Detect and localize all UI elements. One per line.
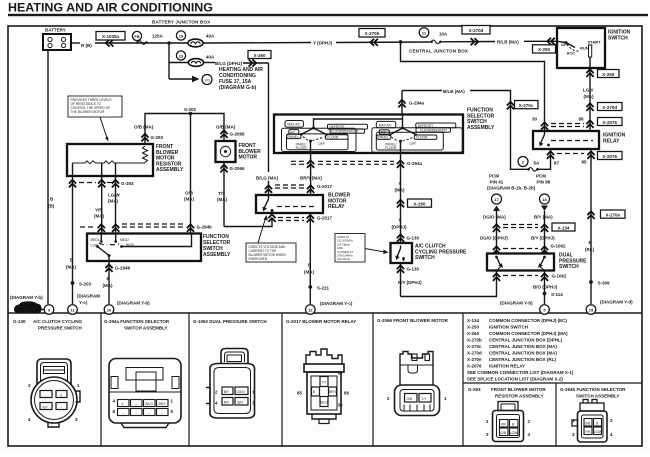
- svg-text:15: 15: [589, 308, 594, 313]
- left cluster: [282, 121, 368, 154]
- svg-text:SWITCH ASSEMBLY: SWITCH ASSEMBLY: [576, 394, 619, 399]
- arrow up pin41: [493, 206, 500, 212]
- svg-text:MED2: MED2: [120, 238, 129, 242]
- connector G-293 drawing: [493, 402, 524, 442]
- chevrons G-2017 above relay: [265, 185, 272, 193]
- wires below resistor assembly: [72, 176, 74, 304]
- svg-text:O/B: O/B: [407, 397, 413, 401]
- chevrons X-270d out: [471, 38, 479, 45]
- svg-text:B/Y (DPH⁠J): B/Y (DPH⁠J): [531, 236, 555, 241]
- svg-text:87: 87: [554, 161, 560, 166]
- svg-text:12: 12: [308, 308, 313, 313]
- svg-text:(MA): (MA): [217, 197, 227, 202]
- svg-text:(MA): (MA): [184, 197, 194, 202]
- splice S-114: [543, 292, 547, 296]
- svg-text:CENTRAL JUNCTION BOX (RL): CENTRAL JUNCTION BOX (RL): [489, 357, 556, 362]
- svg-text:LG/W: LG/W: [108, 193, 120, 198]
- svg-text:THE BLOWER MOTOR.: THE BLOWER MOTOR.: [71, 110, 106, 114]
- svg-text:85: 85: [582, 160, 588, 165]
- svg-text:RELAY: RELAY: [328, 204, 345, 210]
- svg-text:G-130: G-130: [13, 319, 26, 324]
- wire branch vertical: [168, 43, 170, 79]
- circle 12: [306, 305, 316, 315]
- svg-text:LG/W: LG/W: [594, 430, 602, 434]
- splice S-309: [589, 280, 593, 284]
- svg-text:MAX A/C: MAX A/C: [288, 123, 302, 127]
- svg-text:SEE SPLICE LOCATION LIST (DIAG: SEE SPLICE LOCATION LIST (DIAGRAM X-2): [467, 377, 563, 382]
- svg-text:BATTERY: BATTERY: [45, 28, 66, 33]
- svg-text:(MA): (MA): [94, 214, 104, 219]
- svg-text:X-270b: X-270b: [467, 338, 482, 343]
- svg-text:X-260: X-260: [253, 53, 266, 58]
- svg-text:LG/W: LG/W: [510, 431, 518, 435]
- connector G-130 drawing: [31, 359, 80, 427]
- ignition relay box: [533, 131, 599, 149]
- wire to ignition switch: [442, 41, 495, 43]
- internal rail: [73, 161, 146, 164]
- divider schematic/legend: [8, 312, 642, 314]
- circle 18: [540, 194, 550, 204]
- svg-text:(DIAGRAM Y-d): (DIAGRAM Y-d): [600, 300, 633, 305]
- svg-text:G-294b: G-294b: [197, 225, 213, 230]
- svg-text:(DIAGRAM B-1b, B-2b): (DIAGRAM B-1b, B-2b): [487, 186, 536, 191]
- connector G-2017 drawing: [304, 349, 344, 424]
- svg-text:PCM: PCM: [489, 174, 499, 179]
- svg-text:(MA): (MA): [584, 94, 594, 99]
- svg-text:T/Y: T/Y: [322, 381, 328, 385]
- function selector switch assembly box (mode): [274, 115, 463, 154]
- svg-text:IGNITION RELAY: IGNITION RELAY: [489, 364, 525, 369]
- svg-text:PIN 86: PIN 86: [537, 180, 551, 185]
- svg-text:B/LG (DPH⁠J): B/LG (DPH⁠J): [215, 61, 243, 66]
- svg-text:Y/R: Y/R: [585, 430, 591, 434]
- svg-text:MOTOR: MOTOR: [239, 155, 258, 161]
- svg-text:(MA): (MA): [103, 283, 113, 288]
- svg-text:120A: 120A: [152, 34, 164, 39]
- svg-text:(MA): (MA): [108, 199, 118, 204]
- splice S-221: [308, 285, 312, 289]
- svg-text:X-270c: X-270c: [467, 344, 482, 349]
- svg-text:X-260: X-260: [413, 201, 426, 206]
- wire B/LG vertical down to relay: [268, 63, 270, 172]
- svg-text:X-270d: X-270d: [602, 105, 617, 110]
- svg-text:5A: 5A: [534, 161, 541, 166]
- svg-text:SWITCH: SWITCH: [415, 255, 435, 261]
- svg-text:MAX A/C: MAX A/C: [379, 123, 393, 127]
- chevrons G-2066 top: [220, 130, 227, 138]
- svg-text:S-114: S-114: [551, 292, 563, 297]
- svg-text:IGNITION SWITCH: IGNITION SWITCH: [489, 325, 528, 330]
- svg-text:X-2076: X-2076: [602, 154, 617, 159]
- svg-text:G-130: G-130: [407, 236, 420, 241]
- svg-text:CENTRAL JUNCTION BOX (MA): CENTRAL JUNCTION BOX (MA): [489, 351, 557, 356]
- splice 120A fusible link: [136, 41, 148, 45]
- svg-text:SWITCH: SWITCH: [608, 35, 628, 41]
- front blower motor G-2066: [216, 141, 236, 162]
- svg-text:(DIAGRAM Y-c): (DIAGRAM Y-c): [320, 301, 353, 306]
- svg-text:CENTRAL JUNCT⁠ON BOX: CENTRAL JUNCT⁠ON BOX: [409, 49, 468, 54]
- fuse 40A second: [188, 59, 203, 67]
- connector G-294b drawing: [572, 400, 607, 443]
- wire B (MA) selector to circle 10: [108, 261, 110, 304]
- svg-text:B: B: [596, 422, 598, 426]
- svg-text:(DIAGRAM Y-b): (DIAGRAM Y-b): [117, 301, 150, 306]
- svg-text:COMMON CONNECTOR (DPH⁠J) (EC): COMMON CONNECTOR (DPH⁠J) (EC): [489, 318, 567, 323]
- svg-text:--: --: [135, 411, 137, 415]
- svg-text:A/C CLUTCH CYCLING: A/C CLUTCH CYCLING: [33, 319, 82, 324]
- svg-text:40A: 40A: [206, 55, 215, 60]
- svg-text:PCM: PCM: [536, 174, 546, 179]
- svg-text:B: B: [313, 390, 315, 394]
- svg-text:G-293: G-293: [468, 387, 481, 392]
- svg-text:PANEL: PANEL: [288, 135, 298, 139]
- svg-text:G-293: G-293: [151, 135, 164, 140]
- chevrons X-270b: [370, 39, 378, 46]
- svg-text:PANEL: PANEL: [378, 136, 388, 140]
- connector G-294a below box: [307, 160, 314, 168]
- wire junction down to G-294a: [401, 42, 545, 131]
- svg-text:(MA): (MA): [66, 265, 76, 270]
- svg-text:O/B: O/B: [585, 422, 591, 426]
- wire BR/Y from top selector: [310, 154, 312, 196]
- chevrons G-293 top: [141, 134, 148, 142]
- svg-text:R/Y (DPH⁠J): R/Y (DPH⁠J): [398, 280, 422, 285]
- svg-text:23: 23: [179, 54, 184, 59]
- svg-text:--: --: [45, 394, 47, 398]
- svg-text:X-260: X-260: [467, 331, 480, 336]
- svg-text:(DIAGRAM G-b): (DIAGRAM G-b): [219, 85, 257, 91]
- svg-text:OFF: OFF: [410, 142, 416, 146]
- svg-text:START: START: [588, 40, 602, 45]
- svg-text:G-294a: G-294a: [407, 161, 423, 166]
- svg-text:(B): (B): [48, 204, 55, 209]
- svg-text:V: V: [399, 218, 402, 223]
- svg-text:S-221: S-221: [317, 286, 330, 291]
- svg-text:FLOOR: FLOOR: [327, 136, 339, 140]
- svg-text:30: 30: [532, 117, 538, 122]
- svg-text:--: --: [161, 411, 163, 415]
- svg-text:ACC: ACC: [567, 51, 576, 56]
- svg-text:G-2017: G-2017: [317, 184, 333, 189]
- svg-text:FRONT BLOWER MOTOR: FRONT BLOWER MOTOR: [491, 387, 546, 392]
- chevrons X-270c: [507, 102, 514, 110]
- svg-text:B/LG: B/LG: [146, 402, 154, 406]
- svg-text:FLOOR: FLOOR: [416, 136, 428, 140]
- resistor assembly G-293 box: [67, 144, 153, 176]
- svg-text:S-202: S-202: [184, 107, 197, 112]
- svg-text:ENERGIZED.: ENERGIZED.: [249, 257, 269, 261]
- svg-text:MED1: MED1: [91, 238, 100, 242]
- blower motor relay G-2017 box: [256, 195, 323, 213]
- chevrons G-2066 bottom: [223, 162, 225, 227]
- svg-text:R/Y: R/Y: [224, 401, 230, 405]
- svg-text:HEATING AND AIR CONDITIONING: HEATING AND AIR CONDITIONING: [8, 3, 213, 15]
- wire ignition switch down to relay: [589, 68, 591, 131]
- wire B (B) battery down: [47, 50, 49, 304]
- svg-text:O/B: O/B: [185, 191, 194, 196]
- svg-text:DG/O (DPH⁠J): DG/O (DPH⁠J): [480, 236, 508, 241]
- box X-270d: [462, 26, 490, 35]
- wire battery to main bus: [71, 42, 80, 44]
- svg-text:SWITCH: SWITCH: [559, 264, 579, 270]
- svg-text:10: 10: [107, 308, 112, 313]
- svg-text:Y-c): Y-c): [79, 300, 88, 305]
- fuse 40A: [188, 39, 203, 47]
- svg-text:S-309: S-309: [598, 281, 611, 286]
- svg-text:(DPH⁠J): (DPH⁠J): [392, 225, 408, 230]
- circle 23: [176, 51, 185, 60]
- chevrons G-294a entry: [398, 100, 405, 108]
- svg-text:40A: 40A: [206, 34, 215, 39]
- svg-text:17: 17: [494, 197, 499, 202]
- svg-text:G-130: G-130: [407, 267, 420, 272]
- svg-text:Y (DPH⁠J): Y (DPH⁠J): [313, 41, 333, 46]
- chevrons G-130 bottom: [400, 263, 402, 297]
- svg-text:A/C: A/C: [381, 131, 387, 135]
- svg-text:OFF: OFF: [319, 142, 325, 146]
- svg-text:(MA): (MA): [304, 270, 314, 275]
- svg-text:FLOOR: FLOOR: [385, 146, 397, 150]
- svg-text:R/Y: R/Y: [43, 406, 49, 410]
- svg-text:DG/O (MA): DG/O (MA): [483, 215, 506, 220]
- svg-text:(MA): (MA): [395, 188, 405, 193]
- svg-text:87: 87: [338, 371, 344, 376]
- svg-text:B/O (DPH⁠J): B/O (DPH⁠J): [533, 285, 558, 290]
- svg-text:X-1035a: X-1035a: [102, 34, 120, 39]
- chevrons into X-260: [249, 59, 257, 66]
- note box PROVIDES THREE LEVELS: [68, 96, 122, 142]
- svg-text:CENTRAL JUNCTION BOX (DPHL): CENTRAL JUNCTION BOX (DPHL): [489, 338, 563, 343]
- svg-text:ASSEMBLY: ASSEMBLY: [156, 167, 184, 173]
- svg-text:B/Y: B/Y: [224, 390, 230, 394]
- wire main bus segment: [95, 42, 188, 44]
- svg-text:G-1062 DUAL PRESSURE SWITCH: G-1062 DUAL PRESSURE SWITCH: [193, 319, 267, 324]
- svg-text:X-270d: X-270d: [467, 351, 482, 356]
- svg-text:ASSEMBLY: ASSEMBLY: [467, 125, 495, 131]
- svg-text:B/LG (MA): B/LG (MA): [256, 176, 278, 181]
- svg-text:COMMON CONNECTOR (DPH⁠J) (MA): COMMON CONNECTOR (DPH⁠J) (MA): [489, 331, 568, 336]
- svg-text:30: 30: [338, 403, 344, 408]
- chevrons G-293 below: [69, 180, 76, 188]
- wire O/B down from S-202: [190, 114, 192, 234]
- svg-text:G-294b: G-294b: [115, 266, 131, 271]
- svg-text:FLOOR: FLOOR: [296, 146, 308, 150]
- svg-text:--: --: [60, 406, 62, 410]
- svg-text:R/LB (MA): R/LB (MA): [497, 40, 519, 45]
- dual pressure switch box: [487, 254, 554, 271]
- svg-text:ASSEMBLY: ASSEMBLY: [203, 252, 231, 258]
- chevrons G-1062 bottom: [496, 271, 498, 280]
- circle 17: [492, 194, 502, 204]
- svg-text:B/LB (MA): B/LB (MA): [443, 89, 465, 94]
- wires PCM down to dual switch: [496, 211, 498, 254]
- wire into ignition switch: [524, 40, 558, 42]
- svg-text:CENTRAL JUNCTION BOX (MA): CENTRAL JUNCTION BOX (MA): [489, 344, 557, 349]
- svg-text:86: 86: [344, 391, 350, 396]
- svg-text:BATTERY JUNCT⁠ON BOX: BATTERY JUNCT⁠ON BOX: [152, 20, 210, 25]
- svg-text:G-2017: G-2017: [317, 216, 333, 221]
- svg-text:X-250: X-250: [538, 47, 551, 52]
- wire to central junction box: [336, 41, 430, 44]
- svg-text:G-293: G-293: [121, 181, 134, 186]
- connector G-2066 drawing: [395, 352, 440, 416]
- svg-text:B/Y (MA): B/Y (MA): [534, 215, 553, 220]
- svg-text:RELAY: RELAY: [603, 138, 620, 144]
- A/C clutch cycling pressure switch box: [391, 243, 413, 263]
- box X-270b: [359, 29, 385, 38]
- svg-text:103: 103: [204, 78, 210, 82]
- internal feed rail: [314, 115, 403, 128]
- svg-text:O/B: O/B: [501, 431, 507, 435]
- chevrons X-2076 below relay: [547, 151, 554, 159]
- svg-text:G-2066 FRONT BLOWER MOTOR: G-2066 FRONT BLOWER MOTOR: [377, 318, 449, 323]
- box X-260: [248, 51, 271, 59]
- svg-text:(DIAGRAM Y-b): (DIAGRAM Y-b): [10, 295, 43, 300]
- svg-text:R (B): R (B): [81, 43, 92, 48]
- wire branch fuse17 arrow: [169, 78, 192, 80]
- title underline: [8, 14, 648, 16]
- connector G-1062 drawing: [206, 349, 255, 419]
- svg-text:O/B (MA): O/B (MA): [216, 125, 236, 130]
- circle 5: [540, 305, 550, 315]
- connector G-294b dashed line above selector: [98, 224, 105, 232]
- svg-text:(40-47psi): (40-47psi): [337, 257, 350, 261]
- wire ignition relay 85 down right side: [590, 149, 592, 304]
- ground G symbol: [14, 301, 42, 315]
- circle 11: [419, 28, 429, 38]
- chevrons X-260 mid: [397, 200, 404, 208]
- svg-text:G-294a FUNCTION SELECTOR: G-294a FUNCTION SELECTOR: [104, 319, 170, 324]
- wire B (MA) relay to circle 12: [309, 213, 311, 304]
- circle 9: [41, 309, 45, 311]
- arrow down pin86: [541, 206, 548, 212]
- function selector switch assembly (blower) box: [87, 234, 201, 262]
- connector chevrons on R wire: [106, 39, 114, 46]
- wire feed B/LB rail: [401, 91, 403, 115]
- circle 2 fuse 5A: [518, 157, 528, 167]
- svg-text:--: --: [135, 402, 137, 406]
- splice S-203: [71, 281, 75, 285]
- svg-text:BR/Y: BR/Y: [159, 402, 167, 406]
- svg-text:SEE COMMON CONNECTOR LIST (DIA: SEE COMMON CONNECTOR LIST (DIAGRAM X-1): [467, 370, 574, 375]
- battery B1: [43, 28, 71, 51]
- ignition switch box: [557, 28, 605, 68]
- svg-text:FB: FB: [134, 34, 139, 39]
- circle 11g: [68, 305, 78, 315]
- svg-text:(DIAGRAM: (DIAGRAM: [77, 294, 100, 299]
- chevrons G-1062 top: [493, 246, 500, 254]
- svg-text:B/LG: B/LG: [321, 401, 329, 405]
- legend text block: [467, 318, 574, 382]
- svg-text:B/O: B/O: [238, 401, 244, 405]
- note box DIRECTS VOLTAGE: [246, 215, 296, 262]
- cell dividers: [100, 313, 102, 446]
- chevrons X-2076 pin30: [541, 122, 548, 130]
- chevrons X-270e: [587, 211, 594, 219]
- svg-text:Y/R: Y/R: [95, 208, 103, 213]
- svg-text:X-2076: X-2076: [467, 364, 482, 369]
- svg-text:V: V: [399, 181, 402, 186]
- svg-text:DG/O: DG/O: [237, 390, 246, 394]
- svg-text:PIN 41: PIN 41: [490, 180, 504, 185]
- svg-text:19: 19: [179, 34, 184, 39]
- svg-text:X-270e: X-270e: [605, 212, 620, 217]
- svg-text:T/Y: T/Y: [218, 191, 225, 196]
- svg-text:X-270d: X-270d: [469, 28, 484, 33]
- svg-text:85: 85: [297, 391, 303, 396]
- svg-text:FLOOR/DEFROST: FLOOR/DEFROST: [331, 130, 358, 134]
- svg-text:PRESSURE SWITCH: PRESSURE SWITCH: [38, 326, 82, 331]
- box X-250: [533, 45, 556, 53]
- circle 10: [104, 305, 114, 315]
- circle FB: [132, 31, 141, 40]
- svg-text:X-134: X-134: [557, 225, 570, 230]
- node junction dot: [399, 40, 403, 44]
- wire R/Y to dual pressure switch: [401, 279, 497, 297]
- wire main bus to junction: [203, 42, 311, 45]
- wire V down to A/C switch: [400, 153, 402, 243]
- svg-text:T/Y: T/Y: [422, 397, 428, 401]
- svg-text:X-270b: X-270b: [365, 31, 380, 36]
- svg-text:X-134: X-134: [467, 318, 480, 323]
- svg-text:10A: 10A: [439, 32, 448, 37]
- svg-text:(RL): (RL): [585, 247, 594, 252]
- right cluster: [372, 121, 463, 153]
- resistor coil vertical: [143, 146, 148, 163]
- wire branch fuse 23: [169, 62, 188, 64]
- svg-text:X-270e: X-270e: [467, 357, 482, 362]
- box X-1035a: [96, 32, 125, 41]
- svg-text:18: 18: [542, 197, 547, 202]
- note box OPEN AT: [335, 234, 389, 263]
- svg-text:X-2076: X-2076: [602, 120, 617, 125]
- svg-text:G-1062: G-1062: [551, 244, 567, 249]
- chevrons G-2017 below relay: [307, 215, 314, 223]
- svg-text:--: --: [148, 411, 150, 415]
- splice fuse 10A: [430, 40, 442, 44]
- svg-text:RESISTOR ASSEMBLY: RESISTOR ASSEMBLY: [495, 394, 544, 399]
- svg-text:S-203: S-203: [79, 282, 92, 287]
- svg-text:G-2066: G-2066: [230, 132, 246, 137]
- svg-text:G: G: [24, 306, 31, 316]
- svg-text:X-250: X-250: [602, 72, 615, 77]
- wire B/LG to corner: [204, 62, 216, 64]
- svg-text:B: B: [512, 423, 514, 427]
- svg-text:(DIAGRAM Y-b): (DIAGRAM Y-b): [500, 301, 533, 306]
- circle 15: [586, 305, 596, 315]
- svg-text:--: --: [122, 411, 124, 415]
- svg-text:SWITCH ASSEMBLY: SWITCH ASSEMBLY: [124, 326, 167, 331]
- svg-text:X-270c: X-270c: [519, 103, 534, 108]
- svg-text:G-2066: G-2066: [230, 166, 246, 171]
- svg-text:RUN: RUN: [580, 46, 589, 51]
- svg-text:G-2017 BLOWER MOTOR RELAY: G-2017 BLOWER MOTOR RELAY: [286, 319, 356, 324]
- circle 19: [176, 31, 185, 40]
- connector G-294a drawing: [109, 359, 181, 428]
- svg-text:LG/V: LG/V: [583, 88, 594, 93]
- connector X-134: [493, 224, 500, 232]
- svg-text:X-250: X-250: [467, 325, 480, 330]
- svg-text:BR/Y: BR/Y: [329, 390, 337, 394]
- wire T/Y to relay: [224, 219, 272, 227]
- chevrons X-250: [547, 38, 555, 45]
- circle 103: [202, 75, 212, 85]
- svg-text:O/B (MA): O/B (MA): [134, 125, 154, 130]
- svg-text:G-294a: G-294a: [409, 101, 425, 106]
- svg-text:FLOOR/DEFROST: FLOOR/DEFROST: [420, 129, 447, 133]
- chevrons G-130 top: [397, 234, 404, 242]
- svg-text:86: 86: [579, 117, 585, 122]
